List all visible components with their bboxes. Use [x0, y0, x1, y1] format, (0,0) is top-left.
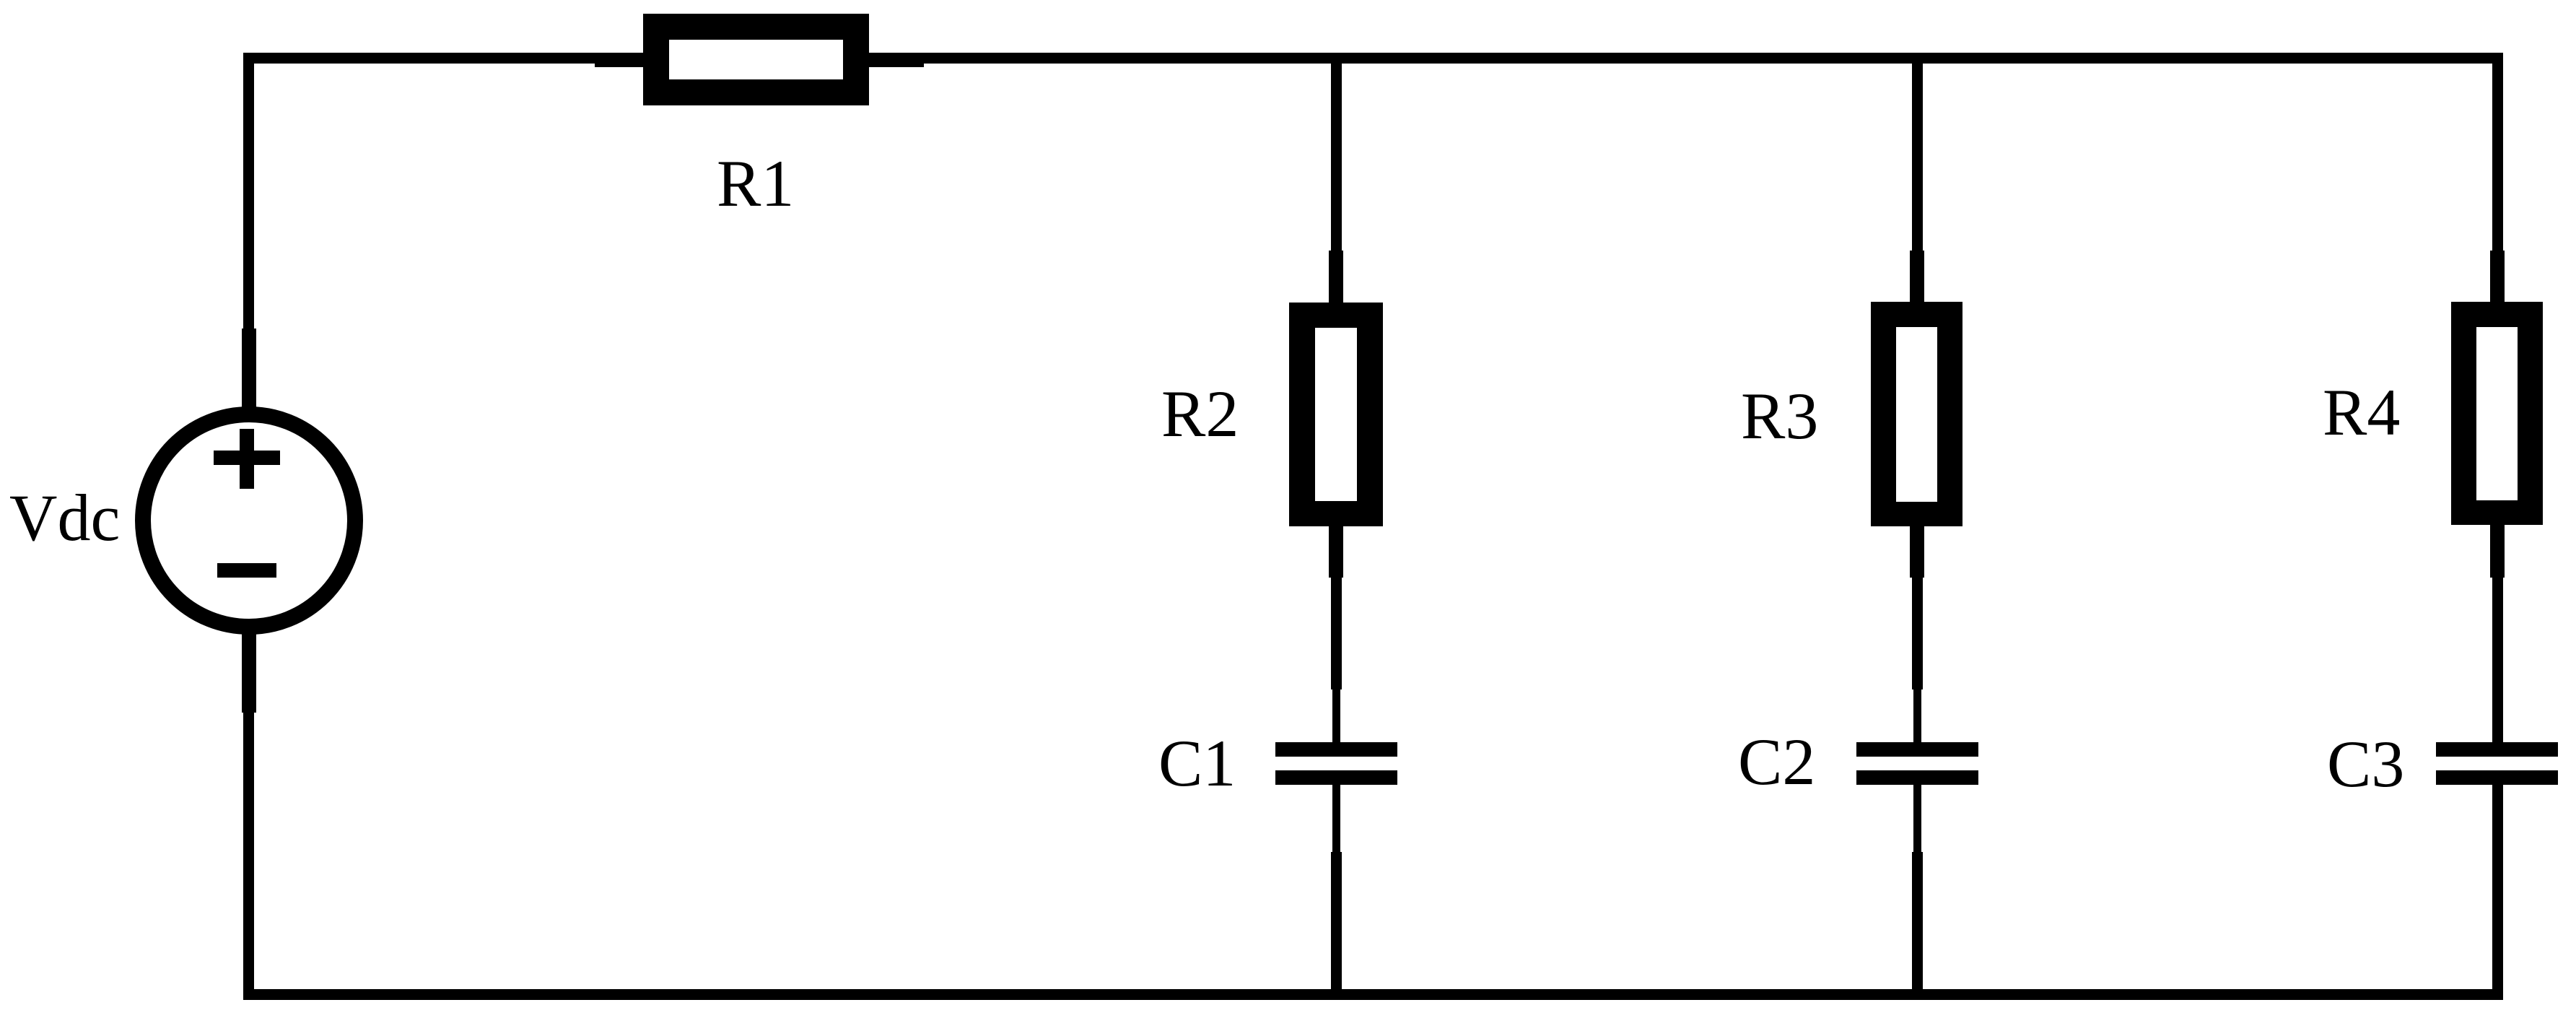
wire C2 to bottom rail — [1913, 785, 1921, 853]
wire bottom rail — [243, 989, 2503, 1000]
wire left rail lower — [243, 630, 254, 1000]
wire top rail left segment — [243, 53, 658, 64]
svg-text:C2: C2 — [1738, 725, 1815, 799]
pin stub R2 top — [1329, 251, 1343, 323]
resistor R3 — [1871, 302, 1962, 526]
wire top rail right segment — [855, 53, 2503, 64]
voltage source Vdc — [143, 414, 355, 627]
svg-text:R2: R2 — [1161, 377, 1239, 451]
wire R3 to C2 — [1912, 574, 1923, 689]
svg-text:C1: C1 — [1158, 726, 1236, 800]
pin stub R4 top — [2490, 251, 2505, 323]
capacitor C3 — [2436, 742, 2558, 785]
wire R2 to C1 — [1331, 574, 1342, 689]
branch node C wire upper — [1912, 53, 1923, 307]
pin stub R2 bottom — [1329, 505, 1343, 578]
pin stub R1 left — [595, 53, 669, 67]
svg-text:R1: R1 — [717, 147, 794, 220]
svg-text:Vdc: Vdc — [9, 481, 120, 554]
svg-text:R3: R3 — [1741, 379, 1818, 453]
wire into C3 top — [2493, 686, 2501, 744]
svg-text:R4: R4 — [2323, 375, 2400, 449]
branch node B wire upper — [1331, 53, 1342, 307]
resistor R1 — [643, 14, 869, 105]
wire into C1 top — [1332, 686, 1340, 744]
pin stub source top — [242, 329, 256, 412]
wire right rail middle — [2492, 521, 2503, 745]
capacitor C2 — [1856, 742, 1978, 785]
wire C3 to bottom rail — [2493, 785, 2501, 853]
resistor R2 — [1289, 303, 1383, 526]
svg-text:C3: C3 — [2327, 727, 2404, 801]
wire right rail lower — [2492, 783, 2503, 1000]
resistor R4 — [2451, 302, 2543, 525]
wire left rail upper — [243, 53, 254, 412]
pin stub source bottom — [242, 630, 256, 713]
wire into C2 top — [1913, 686, 1921, 744]
pin stub R3 bottom — [1910, 505, 1924, 578]
pin stub R1 right — [843, 53, 924, 67]
pin stub R4 bottom — [2490, 505, 2505, 578]
wire right rail upper — [2492, 53, 2503, 307]
wire C1 to bottom rail — [1332, 785, 1340, 853]
capacitor C1 — [1275, 742, 1397, 785]
pin stub R3 top — [1910, 251, 1924, 323]
